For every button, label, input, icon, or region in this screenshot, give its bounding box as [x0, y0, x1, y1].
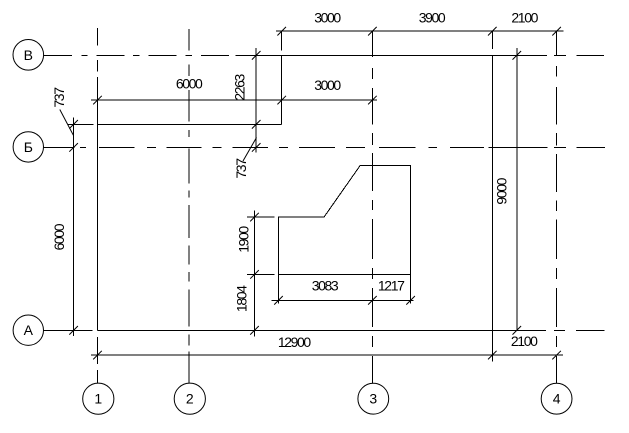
axis A line [44, 329, 605, 331]
ticks right dimension column [513, 51, 522, 335]
svg-text:3083: 3083 [312, 278, 339, 294]
svg-text:В: В [24, 47, 33, 63]
svg-text:1900: 1900 [236, 226, 252, 253]
svg-text:9000: 9000 [494, 177, 510, 204]
dimension line second row [91, 99, 377, 101]
interior polygon [279, 165, 411, 274]
svg-text:12900: 12900 [278, 334, 312, 350]
axis 3 line [371, 31, 373, 383]
svg-text:737: 737 [233, 158, 249, 179]
extension line notch left [68, 123, 94, 125]
svg-text:6000: 6000 [176, 76, 203, 92]
dimension line left column [73, 118, 75, 337]
leader 737 left [60, 110, 74, 136]
extension line above wall corner x492.3 [491, 31, 493, 49]
svg-text:3000: 3000 [314, 10, 341, 26]
dimension line top row [276, 30, 563, 32]
extension line polygon bottom-left [247, 273, 274, 275]
svg-text:4: 4 [553, 391, 561, 407]
circle axis A [13, 315, 43, 345]
ticks polygon dimension row [274, 296, 415, 305]
wall top [282, 54, 493, 56]
dimension line bottom row [91, 354, 563, 356]
circle axis 4 [541, 383, 572, 414]
wall notch vertical [281, 55, 283, 124]
extension line above wall corner x281.7 [281, 31, 283, 50]
circle axis B [13, 40, 44, 71]
svg-text:3: 3 [369, 391, 377, 407]
svg-text:3000: 3000 [314, 77, 341, 93]
circle axis 2 [174, 383, 205, 414]
extension line below polygon left [278, 274, 280, 303]
svg-text:2263: 2263 [232, 74, 248, 101]
ticks second dimension row [93, 96, 377, 105]
leader 737 center [243, 138, 257, 162]
dimension line center lower column [254, 210, 256, 336]
wall right [491, 55, 493, 330]
svg-text:А: А [24, 322, 34, 338]
ticks bottom dimension row [93, 351, 561, 360]
axis Bb line [44, 146, 605, 148]
svg-text:Б: Б [24, 139, 33, 155]
extension line below wall right [491, 330, 493, 361]
axis B line [44, 54, 604, 56]
extension line 2263 top [236, 54, 276, 56]
axis 2 line [188, 29, 190, 384]
wall notch horizontal [98, 123, 282, 125]
svg-text:1804: 1804 [234, 285, 250, 312]
circle axis Bb [13, 132, 43, 162]
axis 4 line [556, 31, 558, 383]
ticks center lower dimension column [250, 213, 259, 335]
wall left [97, 124, 99, 330]
circle axis 1 [83, 383, 114, 414]
dimension line center upper column [255, 48, 257, 152]
dimension line polygon row [272, 299, 414, 301]
ticks center upper dimension column [252, 51, 261, 152]
extension line below polygon right [410, 274, 412, 303]
svg-text:2100: 2100 [511, 333, 538, 349]
svg-text:1217: 1217 [378, 278, 405, 294]
extension line polygon top-left [247, 216, 274, 218]
circle axis 3 [358, 383, 389, 414]
dimension line right column 9000 [516, 48, 518, 331]
svg-text:3900: 3900 [419, 10, 446, 26]
svg-text:6000: 6000 [51, 223, 67, 250]
ticks top dimension row [277, 27, 561, 36]
ticks left dimension column [69, 120, 78, 335]
wall bottom [98, 329, 493, 331]
svg-text:1: 1 [94, 391, 102, 407]
axis 1 line [97, 28, 99, 384]
svg-text:2100: 2100 [511, 10, 538, 26]
svg-text:2: 2 [186, 391, 194, 407]
svg-text:737: 737 [51, 87, 67, 108]
